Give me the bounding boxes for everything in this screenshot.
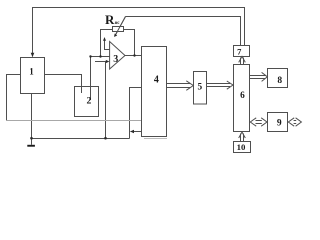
svg-text:2: 2 — [87, 95, 92, 106]
svg-text:9: 9 — [277, 118, 282, 128]
svg-text:10: 10 — [237, 142, 246, 152]
svg-text:6: 6 — [240, 91, 245, 101]
svg-text:3: 3 — [113, 54, 118, 65]
svg-text:ос: ос — [115, 21, 121, 26]
svg-text:8: 8 — [277, 76, 282, 86]
svg-text:4: 4 — [154, 74, 159, 85]
svg-text:5: 5 — [197, 83, 202, 93]
svg-text:1: 1 — [29, 66, 34, 76]
svg-text:R: R — [105, 12, 115, 27]
svg-text:7: 7 — [237, 47, 242, 57]
